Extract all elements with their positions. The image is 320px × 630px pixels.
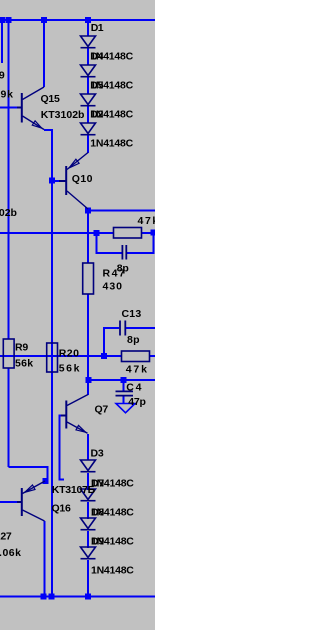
svg-text:47k: 47k	[126, 364, 149, 376]
transistor Q16 (PNP KT3107)	[17, 488, 22, 516]
node bottom rail x=88	[85, 594, 91, 600]
wire rail y=356 left	[0, 355, 122, 357]
wire Q15 collector column x=44	[43, 20, 45, 87]
wire Q7 emitter down to D3	[87, 434, 89, 460]
wire D1 cathode to Q10 emitter	[87, 135, 89, 153]
wire R47 bottom down to node	[87, 294, 89, 395]
svg-text:KT3107Б: KT3107Б	[52, 484, 96, 496]
svg-text:D5: D5	[90, 80, 103, 92]
svg-text:D2: D2	[90, 109, 103, 121]
wire D1 anode from rail	[87, 20, 89, 36]
svg-text:1.06k: 1.06k	[0, 547, 21, 559]
svg-text:R9: R9	[0, 70, 5, 82]
wire Q10 collector node right	[88, 210, 155, 212]
wire Q10 base	[52, 180, 60, 182]
capacitor C4 47p	[116, 391, 134, 395]
diode D1 chain (4x 1N4148)	[81, 36, 96, 135]
wire Q10 collector down to mid rail	[87, 211, 89, 264]
node bottom rail x=44	[41, 594, 47, 600]
svg-text:1N4148C: 1N4148C	[91, 565, 134, 577]
wire Q16 collector column	[44, 521, 46, 596]
svg-text:R20: R20	[59, 348, 80, 360]
node top rail left cut	[0, 17, 5, 23]
svg-text:8p: 8p	[127, 334, 140, 346]
svg-text:C13: C13	[122, 308, 142, 320]
wire C13 branch	[104, 328, 119, 356]
wire Q15 base	[0, 107, 21, 109]
svg-text:KT3102b: KT3102b	[0, 207, 17, 219]
svg-text:39k: 39k	[0, 89, 14, 101]
transistor Q10 (PNP)	[59, 166, 66, 195]
transistor Q15 (NPN KT3102b)	[17, 93, 22, 123]
svg-text:R9: R9	[15, 342, 28, 354]
wire C4 to ground	[123, 397, 125, 404]
diode D3 chain (4x 1N4148)	[81, 460, 96, 559]
wire rail y=356 right	[150, 355, 156, 357]
node Q10 collector	[85, 208, 91, 214]
wire Q7 base column	[60, 416, 66, 480]
svg-text:D4: D4	[90, 51, 103, 63]
svg-text:R47: R47	[103, 268, 127, 280]
svg-text:56k: 56k	[59, 363, 81, 375]
node top rail x=88 (D1)	[85, 17, 91, 23]
wire bottom rail	[0, 596, 155, 598]
wire jog to Q16 emitter	[9, 467, 48, 481]
wire stub left column x=2	[1, 20, 3, 63]
wire column x=8.5 upper	[8, 20, 10, 339]
svg-text:C4: C4	[126, 382, 143, 394]
resistor R20 56k	[47, 343, 58, 372]
wire mid rail y=233	[0, 232, 114, 234]
resistor R47 430	[83, 263, 94, 294]
svg-text:D8: D8	[91, 507, 104, 519]
svg-text:R27: R27	[0, 531, 12, 543]
node rail380 left	[86, 377, 92, 383]
node rail380 C4	[121, 377, 127, 383]
svg-text:47k: 47k	[138, 215, 156, 227]
node Q10 base x=52	[49, 178, 55, 184]
resistor R9 56k	[3, 339, 14, 368]
node RC right return	[151, 230, 157, 236]
svg-text:Q7: Q7	[95, 404, 109, 416]
svg-text:56k: 56k	[15, 358, 33, 370]
wire rail y=380	[88, 379, 155, 381]
svg-text:D1: D1	[91, 22, 104, 34]
wire D1 interlinks	[87, 48, 89, 65]
svg-text:430: 430	[103, 281, 124, 293]
wire Q16 base	[0, 501, 22, 503]
capacitor C13 8p	[120, 321, 125, 336]
wire top power rail	[0, 19, 155, 21]
capacitor 8p (top RC pair)	[122, 245, 126, 260]
wire D3 cathode to bottom rail	[87, 560, 89, 596]
node top rail x=44	[41, 17, 47, 23]
node top rail x=8.5	[6, 17, 12, 23]
wire cap branch right	[127, 233, 154, 253]
node bottom rail x=52	[49, 594, 55, 600]
wire D3 interlinks	[87, 473, 89, 490]
wire column x=8.5 lower below R9	[8, 368, 10, 467]
svg-text:Q10: Q10	[72, 173, 93, 185]
node mid rail cap branch	[94, 230, 100, 236]
svg-text:Q15: Q15	[41, 93, 61, 105]
wire C4 drop	[123, 380, 125, 391]
resistor 47k (rail356)	[122, 351, 150, 362]
svg-text:1N4148C: 1N4148C	[90, 138, 133, 150]
resistor 47k (top RC pair)	[114, 228, 142, 239]
transistor Q7 (NPN)	[61, 401, 66, 429]
node Q16 emitter	[43, 478, 49, 484]
junction squares	[0, 17, 157, 600]
wire C13 right lead	[126, 327, 155, 329]
svg-text:D3: D3	[91, 448, 104, 460]
wire cap branch stub	[97, 233, 122, 253]
wire Q15 emitter jog to column x=52	[44, 130, 52, 596]
svg-text:D9: D9	[91, 536, 104, 548]
svg-text:KT3102b: KT3102b	[41, 109, 85, 121]
svg-text:Q16: Q16	[52, 503, 72, 515]
svg-text:47p: 47p	[128, 396, 145, 408]
ground symbol	[116, 404, 135, 413]
node rail356 C13/47k	[101, 353, 107, 359]
